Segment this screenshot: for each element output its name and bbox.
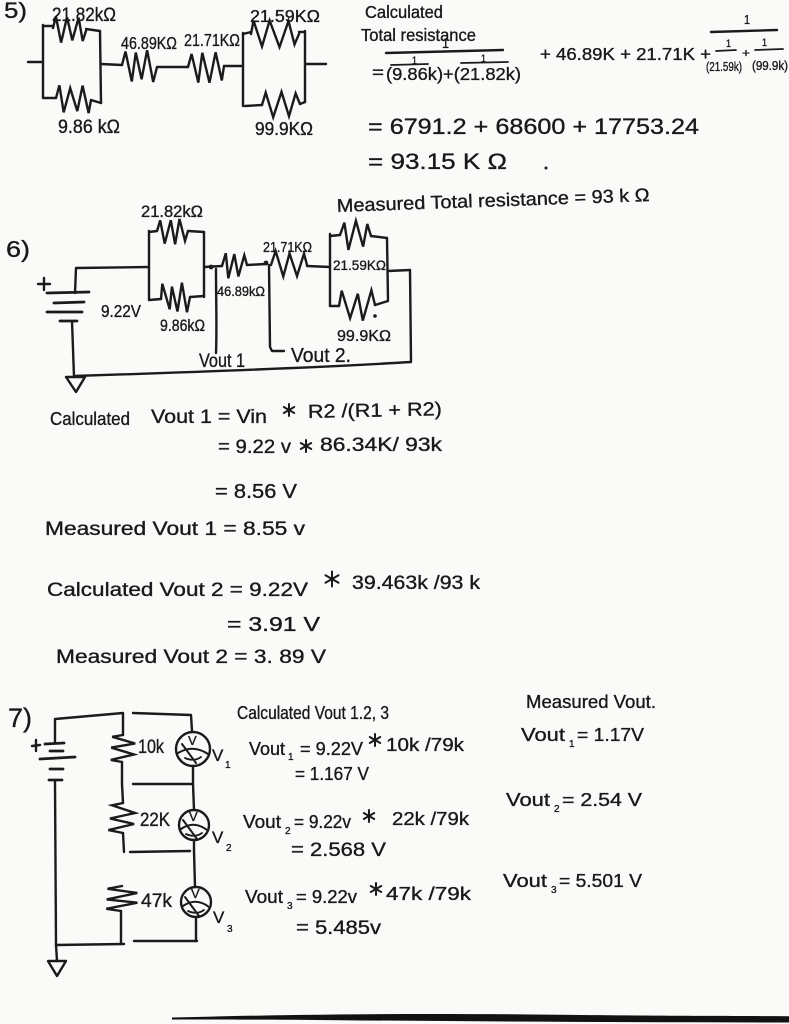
svg-text:Vout: Vout	[521, 724, 565, 745]
svg-text:39.463k /93 k: 39.463k /93 k	[352, 573, 481, 594]
svg-text:Total resistance: Total resistance	[361, 25, 476, 45]
junction node after left pair	[204, 266, 222, 267]
svg-text:5): 5)	[4, 0, 27, 23]
svg-text:46.89kΩ: 46.89kΩ	[217, 283, 265, 299]
wire battery bottom tail sec7	[55, 782, 56, 945]
svg-text:Measured Vout.: Measured Vout.	[526, 692, 656, 712]
resistor 9.86k (bottom, sec6)	[161, 283, 190, 313]
svg-text:+ 46.89K + 21.71K +: + 46.89K + 21.71K +	[540, 44, 711, 64]
svg-text:Vout: Vout	[506, 789, 550, 810]
svg-text:= 9.22v: = 9.22v	[296, 886, 358, 907]
svg-text:= 9.22V: = 9.22V	[300, 738, 364, 759]
wire voltmeter column between taps	[193, 784, 194, 810]
svg-text:10k /79k: 10k /79k	[386, 734, 465, 755]
wire between 46.89k and 21.71k	[157, 66, 188, 68]
svg-text:= 5.501 V: = 5.501 V	[559, 870, 643, 891]
svg-text:9.22V: 9.22V	[101, 301, 141, 321]
svg-text:9.86 kΩ: 9.86 kΩ	[58, 116, 120, 138]
wire voltmeter column tap2 to V3	[194, 851, 195, 887]
node left box: parallel pair frame	[42, 25, 44, 98]
svg-text:(99.9k): (99.9k)	[752, 59, 788, 73]
svg-text:Vout: Vout	[245, 886, 283, 907]
wire tap 1	[133, 783, 192, 785]
svg-text:21.71KΩ: 21.71KΩ	[184, 30, 240, 50]
svg-text:V: V	[212, 828, 224, 847]
svg-text:Measured Vout 1 = 8.55 v: Measured Vout 1 = 8.55 v	[45, 519, 306, 540]
resistor 21.82k (top of left parallel pair, sec5)	[53, 17, 86, 43]
svg-text:22K: 22K	[140, 810, 170, 831]
svg-text:= 9.22 v: = 9.22 v	[218, 437, 292, 458]
wire resistor column to 22K	[122, 784, 123, 803]
wire below 10k	[121, 762, 123, 784]
resistor 46.89k series sec6	[222, 253, 247, 278]
svg-text:Calculated Vout 2 = 9.22V: Calculated Vout 2 = 9.22V	[47, 580, 308, 601]
svg-text:= 2.54 V: = 2.54 V	[562, 789, 643, 810]
svg-text:Calculated Vout 1.2, 3: Calculated Vout 1.2, 3	[237, 703, 389, 723]
wire battery top rail	[55, 713, 123, 743]
battery sec7 plus	[32, 745, 40, 746]
svg-text:3: 3	[287, 901, 293, 912]
resistor 99.9K (bottom of right parallel pair, sec5)	[262, 92, 300, 117]
voltmeter V3	[181, 887, 211, 917]
svg-text:2: 2	[554, 804, 560, 815]
wire tap 2	[130, 851, 190, 852]
wire Vout2 probe	[269, 265, 284, 351]
svg-text:Calculated: Calculated	[365, 2, 443, 22]
scan edge black bar bottom	[172, 1014, 789, 1023]
svg-text:Vout: Vout	[243, 811, 281, 832]
svg-text:V: V	[213, 908, 225, 927]
wire top rail to voltmeter column	[133, 713, 192, 731]
svg-text:21.71KΩ: 21.71KΩ	[263, 240, 312, 256]
svg-text:1: 1	[442, 35, 449, 51]
right parallel pair frame sec6	[329, 234, 331, 306]
wire bottom return rail	[74, 362, 411, 376]
svg-text:= 2.568 V: = 2.568 V	[291, 839, 386, 861]
resistor 21.82k (top, sec6)	[157, 219, 188, 244]
svg-text:7): 7)	[8, 703, 32, 733]
resistor 21.71K series sec5	[188, 52, 224, 82]
wire Vout1 probe	[215, 269, 218, 353]
svg-text:=: =	[372, 63, 384, 82]
svg-text:= 6791.2 + 68600 + 17753.24: = 6791.2 + 68600 + 17753.24	[368, 114, 699, 139]
battery V1 9.22V plus sign	[38, 283, 50, 285]
wire input stub left	[28, 61, 43, 63]
wire below 47k	[120, 911, 122, 944]
svg-text:99.9KΩ: 99.9KΩ	[255, 119, 313, 139]
svg-text:Measured Vout 2 = 3. 89 V: Measured Vout 2 = 3. 89 V	[56, 647, 326, 668]
svg-text:= 1.17V: = 1.17V	[577, 724, 645, 745]
svg-text:R2 /(R1 + R2): R2 /(R1 + R2)	[308, 399, 442, 423]
svg-text:= 1.167 V: = 1.167 V	[295, 763, 370, 784]
resistor 21.71K series sec6	[271, 251, 307, 277]
wire battery bottom tail	[72, 321, 74, 377]
svg-text:Vout: Vout	[503, 870, 547, 891]
svg-text:3: 3	[551, 885, 557, 896]
resistor 22K sec7	[108, 803, 135, 833]
svg-text:V: V	[188, 733, 197, 748]
svg-text:86.34K/ 93k: 86.34K/ 93k	[320, 435, 443, 456]
svg-text:= 3.91 V: = 3.91 V	[227, 613, 320, 636]
wire to node Vout2 junction	[247, 264, 266, 265]
svg-text:2: 2	[226, 843, 232, 854]
svg-text:6): 6)	[6, 236, 30, 262]
resistor 47k sec7	[106, 886, 137, 911]
ground sec6	[66, 377, 85, 392]
resistor 9.86k (bottom of left parallel pair, sec5)	[43, 97, 56, 99]
wire right edge of left pair	[100, 31, 101, 103]
svg-text:21.82kΩ: 21.82kΩ	[52, 4, 116, 26]
resistor 46.89K series sec5	[122, 50, 157, 82]
svg-text:47k: 47k	[141, 891, 172, 912]
svg-text:3: 3	[227, 924, 233, 935]
resistor 21.59K (top of right parallel pair, sec5)	[251, 21, 299, 48]
battery sec7 plates	[45, 743, 64, 744]
battery 9.22V plates	[47, 292, 89, 293]
wire bottom rail sec7	[56, 944, 124, 945]
svg-text:V: V	[212, 746, 224, 765]
ground sec7	[56, 945, 57, 961]
svg-text:= 9.22v: = 9.22v	[294, 811, 352, 832]
wire output stub right	[305, 63, 326, 65]
svg-text:46.89KΩ: 46.89KΩ	[121, 33, 177, 53]
svg-text:1: 1	[762, 37, 767, 49]
resistor 21.59K (top of right pair, sec6)	[340, 221, 371, 250]
voltmeter V1	[176, 732, 210, 766]
svg-text:1: 1	[744, 12, 750, 27]
left parallel pair frame sec6	[148, 231, 150, 300]
svg-text:47k /79k: 47k /79k	[386, 883, 472, 904]
svg-text:10k: 10k	[138, 737, 164, 758]
wire into right pair	[224, 65, 243, 67]
svg-text:= 8.56 V: = 8.56 V	[215, 480, 297, 503]
svg-text:(9.86k)+(21.82k): (9.86k)+(21.82k)	[386, 64, 521, 84]
wire V1 bottom stub	[192, 766, 194, 784]
svg-text:Calculated: Calculated	[50, 408, 130, 429]
right parallel pair frame sec5	[242, 33, 244, 106]
svg-text:Vout: Vout	[249, 738, 285, 759]
svg-text:V: V	[189, 809, 198, 824]
svg-text:1: 1	[288, 752, 294, 763]
svg-text:Vout 1: Vout 1	[199, 351, 245, 372]
wire battery top to left pair	[75, 267, 149, 293]
svg-text:9.86kΩ: 9.86kΩ	[160, 317, 205, 335]
svg-text:1: 1	[569, 739, 575, 750]
wire between left pair and R 46.89k	[101, 64, 122, 65]
resistor 99.9K (bottom of right pair, sec6)	[339, 290, 375, 320]
voltmeter V2	[179, 810, 209, 840]
resistor 10k sec7	[111, 735, 135, 762]
svg-text:= 93.15 K Ω: = 93.15 K Ω	[368, 149, 507, 174]
svg-text:(21.59k): (21.59k)	[706, 60, 742, 74]
svg-text:1: 1	[225, 760, 231, 771]
svg-text:21.59KΩ: 21.59KΩ	[333, 257, 386, 273]
svg-text:21.82kΩ: 21.82kΩ	[141, 202, 203, 221]
svg-text:22k /79k: 22k /79k	[392, 808, 470, 829]
svg-text:Vout 2.: Vout 2.	[291, 345, 351, 367]
svg-text:= 5.485v: = 5.485v	[296, 917, 381, 939]
svg-text:Vout 1 = Vin: Vout 1 = Vin	[151, 407, 267, 428]
svg-text:+: +	[742, 46, 750, 60]
wire below 22K	[123, 833, 124, 852]
svg-text:21.59KΩ: 21.59KΩ	[250, 6, 320, 26]
svg-text:V: V	[191, 886, 200, 901]
svg-text:1: 1	[726, 38, 731, 50]
wire output to bottom rail	[388, 270, 411, 361]
wire to right pair	[307, 266, 330, 267]
svg-text:99.9KΩ: 99.9KΩ	[337, 328, 391, 345]
svg-text:2: 2	[285, 826, 291, 837]
